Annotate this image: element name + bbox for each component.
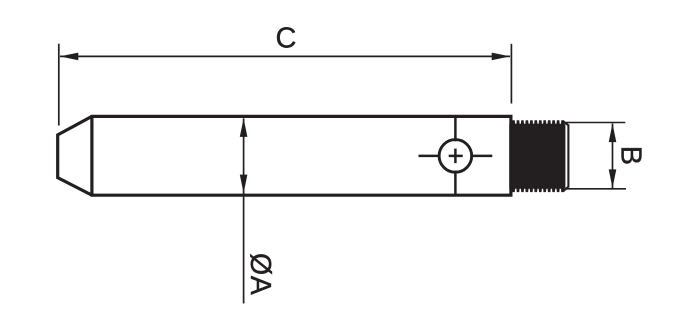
hole circle [439, 140, 472, 173]
svg-text:C: C [276, 23, 297, 55]
dimension B line [612, 124, 614, 188]
dimension C line [60, 55, 510, 57]
hole vertical centerline [454, 117, 457, 194]
dimension C arrowhead right [492, 53, 511, 61]
dimension A arrowhead top [240, 118, 248, 137]
dimension B arrowhead top [609, 123, 617, 142]
dimension C extension line left [58, 44, 60, 126]
dimension C arrowhead left [60, 53, 79, 61]
dimension A line [243, 118, 245, 303]
dimension B arrowhead bottom [609, 169, 617, 188]
thread end face edge [563, 121, 569, 191]
tip-to-body junction line [90, 115, 93, 197]
svg-text:ØA: ØA [244, 253, 276, 295]
probe body outline [58, 116, 511, 195]
dimension C extension line right [510, 44, 512, 104]
dimension A arrowhead bottom [240, 175, 248, 194]
dimension B extension line top [566, 122, 625, 124]
threaded section [510, 121, 565, 192]
svg-text:B: B [614, 146, 646, 165]
hole horizontal centerline [419, 155, 493, 158]
dimension B extension line bottom [566, 188, 626, 190]
